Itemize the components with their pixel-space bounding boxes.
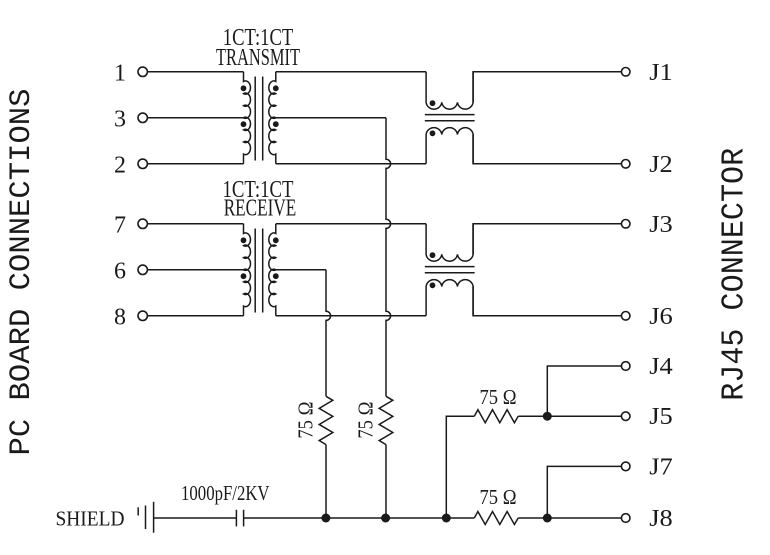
choke L1 top winding dot xyxy=(430,100,436,106)
svg-text:8: 8 xyxy=(114,304,126,330)
transformer T2 core xyxy=(255,229,263,313)
shield terminal middle bar xyxy=(145,506,147,530)
node D junction xyxy=(543,514,552,523)
wire T2 secondary top to choke L2 xyxy=(276,223,426,225)
wire T2 secondary bottom to choke L2 xyxy=(276,315,426,317)
transformer T2 secondary winding xyxy=(269,224,276,316)
wire pin 8 to T2 primary bottom xyxy=(147,315,243,317)
pin J8 terminal xyxy=(621,514,630,523)
wire choke L2 to J3 xyxy=(473,224,621,255)
shield bus junction at J5 rail xyxy=(442,514,451,523)
node C junction xyxy=(543,412,552,421)
wire T1 secondary top to choke L1 xyxy=(276,71,426,73)
svg-text:J6: J6 xyxy=(649,304,673,330)
svg-text:J2: J2 xyxy=(649,152,673,178)
wire pin 7 to T2 primary top xyxy=(147,223,243,225)
wire pin 3 to T1 primary center tap xyxy=(147,117,243,119)
pin 6 terminal xyxy=(138,265,147,274)
svg-text:J5: J5 xyxy=(649,404,673,430)
pin 8 terminal xyxy=(138,311,147,320)
capacitor C1 right plate xyxy=(243,510,245,527)
wire capacitor C1 to shield bus xyxy=(244,517,475,519)
capacitor C1 left plate xyxy=(235,510,237,527)
wire choke L2 to J6 xyxy=(473,287,621,316)
wire node A vertical from T1 center tap to resistor R2, hops over crossing wires xyxy=(386,118,391,397)
svg-text:7: 7 xyxy=(114,212,126,238)
wire shield to capacitor C1 xyxy=(154,517,237,519)
svg-text:75 Ω: 75 Ω xyxy=(480,385,517,409)
resistor R2 body xyxy=(379,396,393,444)
transformer T1 core xyxy=(255,77,263,161)
wire node B vertical from T2 center tap to resistor R1, hops over crossing wire xyxy=(326,270,331,397)
wire resistor R2 to shield bus xyxy=(385,445,387,518)
svg-text:3: 3 xyxy=(114,106,126,132)
wire J4 to node C xyxy=(547,366,621,416)
wire choke L1 to J2 xyxy=(473,135,621,164)
svg-text:J7: J7 xyxy=(649,454,673,480)
transformer T1 secondary dot lower xyxy=(273,121,279,127)
transformer T1 primary dot lower xyxy=(241,121,247,127)
pin J1 terminal xyxy=(621,68,630,77)
choke L2 top winding dot xyxy=(430,252,436,258)
shield terminal tick xyxy=(137,507,139,515)
wire resistor R1 to shield bus xyxy=(325,445,327,518)
pin J6 terminal xyxy=(621,312,630,321)
choke L2 bottom winding dot xyxy=(430,282,436,288)
svg-text:75 Ω: 75 Ω xyxy=(480,485,517,509)
svg-text:J3: J3 xyxy=(649,212,673,238)
wire T1 secondary center tap to node A drop xyxy=(276,117,386,119)
transformer T1 secondary winding xyxy=(269,72,276,164)
transformer T1 primary dot upper xyxy=(241,85,247,91)
svg-text:J8: J8 xyxy=(649,506,673,532)
svg-text:RJ45 CONNECTOR: RJ45 CONNECTOR xyxy=(718,148,753,401)
shield bus junction at resistor R2 xyxy=(381,514,390,523)
transformer T2 primary dot lower xyxy=(241,273,247,279)
wire choke L1 to J1 xyxy=(473,72,621,103)
choke L2 core xyxy=(425,267,475,273)
transformer T2 primary dot upper xyxy=(241,237,247,243)
shield bus junction at resistor R1 xyxy=(321,514,330,523)
choke L1 core xyxy=(425,115,475,121)
wire shield rail up to resistor R3 xyxy=(446,416,474,518)
wire J7 to node D xyxy=(547,466,621,518)
resistor R4 body xyxy=(474,512,518,525)
choke L1 top winding xyxy=(426,72,473,109)
choke L1 bottom winding xyxy=(426,128,473,164)
svg-text:TRANSMIT: TRANSMIT xyxy=(216,45,300,71)
wire pin 1 to T1 primary top xyxy=(147,71,243,73)
transformer T2 secondary dot lower xyxy=(273,273,279,279)
pin J4 terminal xyxy=(621,362,630,371)
wire resistor R3 to J5 through node C xyxy=(518,415,621,417)
pin 1 terminal xyxy=(138,67,147,76)
shield terminal tall bar xyxy=(153,502,155,533)
transformer T2 primary winding xyxy=(244,224,251,316)
svg-text:1: 1 xyxy=(114,60,126,86)
svg-text:6: 6 xyxy=(114,258,126,284)
resistor R3 body xyxy=(474,410,518,423)
choke L2 bottom winding xyxy=(426,280,473,316)
pin 2 terminal xyxy=(138,159,147,168)
resistor R1 body xyxy=(319,396,333,444)
pin J7 terminal xyxy=(621,462,630,471)
svg-text:PC BOARD CONNECTIONS: PC BOARD CONNECTIONS xyxy=(5,89,39,456)
svg-text:75 Ω: 75 Ω xyxy=(293,402,317,439)
pin J5 terminal xyxy=(621,412,630,421)
transformer T2 secondary dot upper xyxy=(273,237,279,243)
pin J3 terminal xyxy=(621,220,630,229)
wire T1 secondary bottom to choke L1 xyxy=(276,163,426,165)
transformer T1 primary winding xyxy=(244,72,251,164)
wire resistor R4 to J8 through node D xyxy=(518,517,621,519)
svg-text:J4: J4 xyxy=(649,354,673,380)
pin J2 terminal xyxy=(621,160,630,169)
svg-text:RECEIVE: RECEIVE xyxy=(224,195,297,221)
wire pin 6 to T2 primary center tap xyxy=(147,269,243,271)
choke L1 bottom winding dot xyxy=(430,130,436,136)
pin 3 terminal xyxy=(138,113,147,122)
svg-text:2: 2 xyxy=(114,152,126,178)
svg-text:SHIELD: SHIELD xyxy=(56,506,125,530)
wire pin 2 to T1 primary bottom xyxy=(147,163,243,165)
choke L2 top winding xyxy=(426,224,473,261)
svg-text:1000pF/2KV: 1000pF/2KV xyxy=(181,481,270,505)
transformer T1 secondary dot upper xyxy=(273,85,279,91)
wire T2 secondary center tap to node B drop xyxy=(276,269,326,271)
svg-text:75 Ω: 75 Ω xyxy=(353,402,377,439)
svg-text:J1: J1 xyxy=(649,60,673,86)
pin 7 terminal xyxy=(138,219,147,228)
